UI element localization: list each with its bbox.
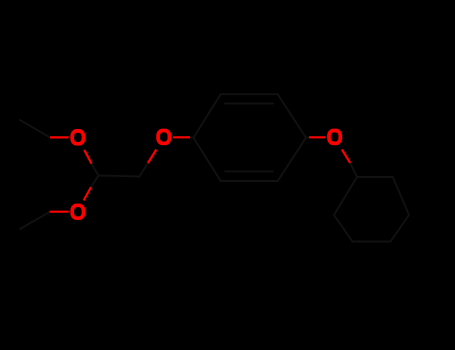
bond O2 methoxy horizontal red bbox=[50, 211, 69, 213]
bond CH2-O3 red half bbox=[148, 150, 157, 164]
bond ring-O4 red bbox=[309, 136, 325, 138]
wire methyl stub CH3 bottom-left bbox=[20, 212, 50, 229]
wire CH-CH2 bond bbox=[99, 176, 140, 177]
wire O3-ring black part bbox=[190, 136, 194, 138]
wire CH2-O3 black half bbox=[139, 163, 148, 177]
benzene ring central bbox=[194, 94, 307, 181]
wire methyl stub CH3 top-left bbox=[20, 120, 50, 137]
oxygen O1 top-left bbox=[72, 131, 83, 144]
wire O1-CH black half bbox=[92, 164, 99, 176]
bond O4-C1 red half bbox=[342, 150, 350, 163]
bond O1 methoxy horizontal red bbox=[50, 136, 69, 138]
benzene ring central inner double bond top bbox=[225, 103, 273, 105]
oxygen O2 bottom-left bbox=[72, 205, 83, 218]
benzene ring central inner double bond bottom bbox=[225, 170, 273, 172]
wire ring-O4 black part bbox=[306, 136, 309, 138]
oxygen O3 mid-left ether bbox=[158, 131, 169, 144]
bond O1-CH red half bbox=[84, 150, 91, 164]
wire O2-CH black half bbox=[91, 176, 99, 188]
oxygen O4 mid-right ether bbox=[329, 131, 340, 144]
bond O3-ring red bbox=[173, 136, 190, 138]
phenyl ring right bbox=[334, 177, 409, 242]
bond O2-CH red half bbox=[84, 187, 91, 200]
wire O4-C1 black half bbox=[350, 163, 357, 177]
